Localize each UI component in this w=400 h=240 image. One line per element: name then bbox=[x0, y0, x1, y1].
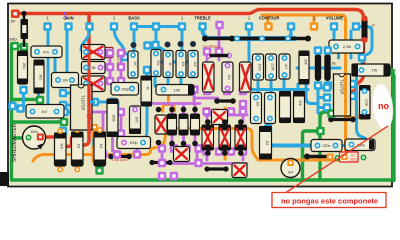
svg-text:100p: 100p bbox=[130, 141, 138, 145]
svg-text:1M5: 1M5 bbox=[135, 116, 139, 122]
svg-text:4u7: 4u7 bbox=[284, 64, 288, 70]
svg-text:39K: 39K bbox=[304, 59, 308, 66]
svg-text:J7: J7 bbox=[371, 24, 375, 28]
svg-text:50k: 50k bbox=[156, 60, 160, 66]
svg-text:2M2: 2M2 bbox=[22, 63, 26, 69]
svg-text:1W TREBLE: 1W TREBLE bbox=[203, 45, 220, 49]
svg-text:J6: J6 bbox=[332, 62, 336, 66]
svg-text:220K: 220K bbox=[271, 63, 275, 71]
svg-text:10n: 10n bbox=[62, 79, 68, 83]
svg-text:220n: 220n bbox=[323, 144, 331, 148]
svg-text:1W: 1W bbox=[372, 69, 378, 73]
svg-text:VOLUME: VOLUME bbox=[326, 16, 344, 21]
svg-text:CONTOUR: CONTOUR bbox=[259, 16, 280, 21]
svg-text:TL072P: TL072P bbox=[81, 95, 86, 110]
svg-text:no: no bbox=[378, 101, 389, 111]
svg-text:100u: 100u bbox=[30, 130, 38, 134]
svg-text:2,2M: 2,2M bbox=[343, 45, 351, 49]
svg-text:39K: 39K bbox=[298, 100, 302, 107]
svg-text:no pongas este componete: no pongas este componete bbox=[281, 197, 378, 206]
svg-text:1M: 1M bbox=[77, 144, 81, 149]
svg-text:GAIN: GAIN bbox=[63, 16, 73, 21]
svg-text:1M: 1M bbox=[265, 141, 269, 146]
svg-text:BASS: BASS bbox=[128, 16, 140, 21]
svg-text:100n: 100n bbox=[258, 63, 262, 70]
svg-text:1M: 1M bbox=[99, 144, 103, 149]
svg-text:10k: 10k bbox=[181, 61, 185, 67]
svg-text:100u: 100u bbox=[349, 158, 356, 162]
svg-text:10n: 10n bbox=[227, 74, 231, 80]
svg-text:9V: 9V bbox=[11, 20, 16, 24]
svg-text:470R: 470R bbox=[364, 99, 368, 107]
svg-text:4k7: 4k7 bbox=[133, 61, 137, 66]
svg-text:1k: 1k bbox=[168, 62, 172, 66]
svg-text:TREBLE: TREBLE bbox=[194, 16, 211, 21]
svg-text:3K3: 3K3 bbox=[39, 74, 43, 80]
svg-text:1 2W GAIN: 1 2W GAIN bbox=[112, 158, 127, 162]
svg-text:4n7: 4n7 bbox=[288, 171, 294, 175]
svg-text:1M: 1M bbox=[256, 102, 260, 107]
svg-text:1k5: 1k5 bbox=[193, 61, 197, 66]
svg-text:TL072P: TL072P bbox=[340, 79, 345, 94]
svg-text:1W BASS: 1W BASS bbox=[116, 56, 120, 69]
svg-text:1 2W CLP 3: 1 2W CLP 3 bbox=[203, 107, 219, 111]
svg-text:SHREDMASTER: SHREDMASTER bbox=[12, 123, 18, 162]
svg-text:4k: 4k bbox=[146, 86, 150, 90]
svg-text:160K: 160K bbox=[112, 114, 116, 122]
svg-text:10K: 10K bbox=[174, 89, 181, 93]
svg-text:47n: 47n bbox=[43, 51, 49, 55]
svg-text:4n7: 4n7 bbox=[42, 110, 48, 114]
svg-text:41K: 41K bbox=[60, 143, 64, 150]
svg-text:68: 68 bbox=[92, 66, 96, 70]
svg-text:100p: 100p bbox=[121, 88, 129, 92]
svg-text:GND: GND bbox=[9, 38, 18, 42]
